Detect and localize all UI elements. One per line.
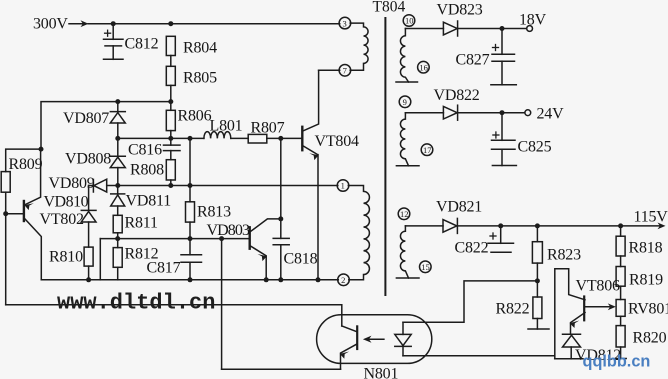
resistor R812 [113,248,122,268]
wire feedback rail y185 [89,185,94,187]
capacitor C822 [500,226,502,243]
svg-text:qqlbb.cn: qqlbb.cn [583,353,651,371]
node junction C817 bottom [188,277,193,282]
resistor R818 [616,236,625,256]
node junction R805/R806 [168,99,173,104]
node pin 2 [338,274,350,286]
svg-text:16: 16 [419,62,428,72]
wire C818 branch [280,138,282,238]
svg-text:C822: C822 [455,240,489,257]
node pin 15 [420,261,432,273]
node junction C822 top [498,223,503,228]
op-amp N801 optocoupler [317,315,432,364]
diode N801 LED [402,322,404,334]
svg-text:2: 2 [341,275,345,285]
potentiometer RV801 wiper arrow [585,306,612,308]
svg-text:VT806: VT806 [576,278,621,295]
node junction VT804 emitter [316,277,321,282]
svg-text:VD810: VD810 [44,194,89,211]
node junction R806 bottom [168,136,173,141]
ground R820 return bar [615,358,626,360]
svg-text:C818: C818 [284,251,318,268]
node pin 10 [403,15,415,27]
potentiometer RV801 [616,300,625,317]
capacitor C825 [501,113,503,141]
diode VD810 [81,209,96,211]
diode VD811 [117,186,119,195]
node junction VD808 bottom [115,183,120,188]
node junction VD803 collector [278,216,283,221]
resistor R805 [166,66,175,85]
wire feedback from R823 to opto LED [403,281,537,322]
transistor VD803 [248,227,250,248]
wire [170,56,172,67]
svg-text:L801: L801 [210,118,243,135]
svg-text:VD822: VD822 [434,87,480,104]
svg-text:9: 9 [403,97,407,107]
svg-text:C812: C812 [125,36,159,53]
svg-text:R818: R818 [629,240,663,257]
svg-text:R809: R809 [9,156,43,173]
node junction R809 top [39,147,44,152]
resistor R809 [6,149,41,172]
wire opto collector rail [6,305,342,326]
ground C827 return bar [491,84,516,86]
resistor R811 [113,215,122,233]
svg-text:VD823: VD823 [437,2,483,19]
winding primary 3-7 [350,23,368,70]
resistor R823 [536,226,538,242]
ground R822 return bar [528,328,549,330]
node pin 16 [418,61,430,73]
wire opto branch down [221,239,223,370]
svg-text:R822: R822 [496,301,530,318]
svg-text:R820: R820 [633,330,667,347]
wire opto LED cathode to VD812 [403,355,555,357]
resistor R813 [189,138,191,201]
svg-text:17: 17 [423,145,432,155]
svg-text:15: 15 [421,262,430,272]
svg-text:1: 1 [341,181,345,191]
transistor VT804 [301,127,303,150]
ground winding 15 end bar [396,277,419,279]
ground winding 17 end bar [396,165,419,167]
capacitor C827 [501,29,503,55]
diode VD822 [405,112,443,114]
node junction VD807 top [115,99,120,104]
svg-text:C825: C825 [518,139,552,156]
transistor VT802 [6,213,23,215]
svg-text:300V: 300V [33,16,68,33]
resistor R810 [84,247,93,266]
node pin 17 [421,144,433,156]
wire VT802 collector link [99,239,101,280]
svg-text:R819: R819 [629,272,663,289]
node junction R813 line [188,183,193,188]
svg-text:C816: C816 [128,142,162,159]
svg-text:VD811: VD811 [126,193,172,210]
wire collector to pin7 [319,69,340,71]
node pin 3 [339,17,351,29]
capacitor C816 [170,138,172,145]
node junction R813 bottom [188,236,193,241]
ground C825 return bar [492,165,516,167]
svg-text:N801: N801 [364,366,399,379]
diode VD812 [563,333,581,335]
winding secondary 12-15 [400,226,408,278]
wire 300V top rail [88,23,340,25]
capacitor C818 [273,237,289,239]
wire base rail y238 [100,238,248,240]
wire primary return y280 [41,279,338,281]
svg-text:VD807: VD807 [63,110,109,127]
resistor R806 [166,110,175,130]
svg-text:3: 3 [343,18,347,28]
wire VD810 branch [88,186,90,210]
node junction R809 bottom [3,211,8,216]
diode VD808 [117,138,119,157]
svg-text:24V: 24V [537,106,565,123]
transformer core [384,18,386,295]
wire VD812 cathode return [555,358,583,360]
svg-text:VD821: VD821 [436,199,482,216]
node junction R811/R812 [115,236,120,241]
wire [170,85,172,101]
wire 115V rail [457,225,662,227]
diode VD807 [117,102,119,113]
node pin 1 [337,180,349,192]
node junction opto branch [219,236,224,241]
resistor R819 [616,267,625,287]
transistor VT806 [583,297,585,321]
node junction C812 top [111,21,116,26]
winding secondary 9-17 [400,113,408,166]
svg-text:115V: 115V [634,209,668,226]
inductor L801 [204,132,231,139]
node junction R813 top line [188,136,193,141]
node terminal 18V [527,26,533,32]
svg-text:R808: R808 [130,162,164,179]
svg-text:R807: R807 [251,120,285,137]
svg-text:R804: R804 [183,40,217,57]
diode VD821 [405,225,443,227]
node junction R807/VT804 base [278,136,283,141]
svg-text:R823: R823 [547,247,581,264]
node junction R823 top [535,223,540,228]
svg-text:10: 10 [405,16,414,26]
resistor R808 [166,160,175,180]
svg-text:VD808: VD808 [65,151,111,168]
svg-text:R810: R810 [49,249,83,266]
svg-text:12: 12 [400,209,409,219]
wire light arrow [368,338,384,340]
resistor R820 [616,326,625,347]
svg-text:C817: C817 [147,260,181,277]
svg-text:VD803: VD803 [207,222,251,239]
node pin 9 [399,96,411,108]
resistor R822 [536,281,538,297]
node junction C818 bottom [278,277,283,282]
node terminal 24V [525,110,531,116]
node junction VD807/VD808 [115,136,120,141]
diode VD823 [405,28,443,30]
diode VD809 [92,179,94,192]
svg-text:VT804: VT804 [315,133,360,150]
wire left rail down [5,214,7,305]
resistor R804 [166,36,175,55]
svg-text:18V: 18V [519,12,547,29]
node junction C825 top [500,110,505,115]
svg-text:R805: R805 [183,70,217,87]
wire drive rail y138 [118,137,204,139]
wire upper-left horizontal [41,102,171,150]
capacitor C817 [189,239,191,255]
node pin 7 [339,65,351,77]
node junction R804 top [168,21,173,26]
node junction R818 top [618,223,623,228]
ground C812 return bar [104,58,124,60]
svg-text:C827: C827 [456,52,490,69]
node pin 12 [398,208,410,220]
node junction R823 bottom [535,278,540,283]
wire 300V input arrow [69,23,86,25]
node junction VD803 emitter [264,277,269,282]
capacitor C812 [112,24,114,40]
node junction C827 top [500,26,505,31]
node junction R810 bottom [86,277,91,282]
svg-text:www.dltdl.cn: www.dltdl.cn [57,291,215,316]
svg-text:R806: R806 [178,108,212,125]
svg-text:T804: T804 [373,0,406,16]
svg-text:VT802: VT802 [40,211,85,228]
resistor R807 [248,134,267,143]
svg-text:R811: R811 [125,215,158,232]
node junction R808 bottom [168,183,173,188]
winding secondary 10-16 [400,29,408,83]
svg-text:R813: R813 [197,204,231,221]
transistor N801 phototransistor [356,326,358,349]
winding primary 1-2 [348,186,369,280]
svg-text:RV801: RV801 [628,301,668,318]
ground winding 16 end bar [396,81,418,83]
svg-text:7: 7 [343,66,347,76]
